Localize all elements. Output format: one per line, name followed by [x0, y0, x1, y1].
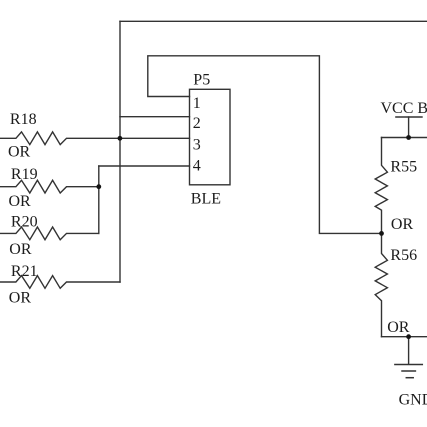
svg-text:VCC BLE: VCC BLE: [381, 100, 427, 117]
svg-text:R56: R56: [390, 247, 417, 264]
wire: VCC rail to right edge: [382, 137, 427, 139]
node: junction pin3 net / vertical bus: [118, 136, 123, 141]
ground symbol bar 2: [402, 370, 415, 372]
node: junction R19 / pin4 net: [96, 184, 101, 189]
wire: P5 pin4 stub: [99, 165, 190, 167]
svg-text:OR: OR: [9, 289, 32, 306]
svg-text:OR: OR: [391, 216, 414, 233]
svg-text:P5: P5: [193, 72, 210, 89]
wire: top rail net (pin2/pin3 net) to right edge: [120, 20, 427, 22]
svg-text:OR: OR: [9, 193, 32, 210]
ground symbol bar 3: [406, 377, 413, 379]
resistor R20 body and leads: [0, 227, 99, 240]
svg-text:1: 1: [193, 95, 201, 112]
resistor R56 body and leads: [375, 233, 387, 336]
resistor R21 body and leads: [0, 276, 120, 289]
svg-text:R55: R55: [390, 159, 417, 176]
wire: P5 pin2 stub: [120, 116, 190, 118]
svg-text:R21: R21: [11, 263, 38, 280]
svg-text:BLE: BLE: [191, 190, 221, 207]
svg-text:R19: R19: [11, 166, 38, 183]
power symbol VCC_BLE stem: [408, 117, 410, 138]
svg-text:3: 3: [193, 137, 201, 154]
svg-text:OR: OR: [8, 143, 31, 160]
ground symbol bar 1: [395, 364, 422, 366]
resistor R18 body and leads (pin3 line): [0, 132, 190, 145]
resistor R19 body and leads: [0, 180, 99, 193]
power symbol VCC_BLE bar: [396, 116, 422, 118]
wire: vertical x=98.8 pin4 net down to R20: [98, 166, 100, 233]
connector P5 box: [190, 89, 231, 185]
svg-text:R20: R20: [11, 214, 38, 231]
wire: vertical bus x=120 from top rail down to R21: [119, 21, 121, 282]
svg-text:OR: OR: [9, 241, 32, 258]
node: junction R55/R56 midpoint: [379, 231, 384, 236]
wire: bottom rail from R56 to right edge: [382, 336, 427, 338]
svg-text:2: 2: [193, 115, 201, 132]
svg-text:4: 4: [193, 158, 201, 175]
svg-text:GND BLE: GND BLE: [399, 391, 427, 408]
node: junction VCC rail: [406, 135, 411, 140]
node: junction ground rail: [406, 334, 411, 339]
wire: P5 pin1 net to R55/R56 midpoint: [148, 56, 382, 234]
svg-text:R18: R18: [10, 111, 37, 128]
ground symbol stem: [408, 337, 410, 365]
resistor R55 body and leads: [375, 138, 387, 234]
svg-text:OR: OR: [387, 319, 410, 336]
